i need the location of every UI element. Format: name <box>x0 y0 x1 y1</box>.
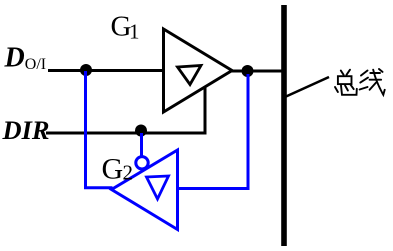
op-amp buffer G1 triangle <box>164 29 233 112</box>
svg-text:O/I: O/I <box>25 56 46 73</box>
wire DIR line <box>46 132 207 135</box>
label D O/I <box>4 43 47 74</box>
wire blue G2 input: from G1 output node down and left to G2 <box>178 74 248 189</box>
svg-text:DIR: DIR <box>1 116 49 145</box>
wire G1 output to bus <box>230 70 283 73</box>
tri-state symbol inside G1 <box>178 66 202 85</box>
node junction on D wire <box>80 64 92 76</box>
wire D input line <box>48 69 165 72</box>
wire G1 enable (vertical from DIR line to G1 bottom edge) <box>204 84 207 135</box>
bus thick vertical line <box>281 5 287 246</box>
wire blue from DIR node down to G2 bubble <box>140 133 143 158</box>
svg-text:D: D <box>4 43 25 74</box>
label G1 <box>111 11 140 44</box>
node junction at G1 output <box>242 65 254 77</box>
svg-text:1: 1 <box>129 20 140 44</box>
svg-text:2: 2 <box>123 161 134 185</box>
svg-text:G: G <box>102 152 124 185</box>
label 线 (Chinese char drawn as strokes) <box>360 69 385 95</box>
wire blue G2 output: from apex left then up to D node <box>86 71 113 188</box>
pointer line from bus to label <box>286 77 329 97</box>
op-amp buffer G2 triangle (blue, pointing left) <box>112 150 178 230</box>
node junction on DIR wire <box>135 125 147 137</box>
label 总 (Chinese char drawn as strokes) <box>335 70 357 95</box>
label G2 <box>102 152 134 185</box>
tri-state symbol inside G2 <box>147 176 169 199</box>
inverter bubble on G2 enable <box>136 157 148 169</box>
